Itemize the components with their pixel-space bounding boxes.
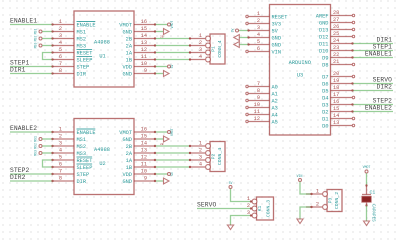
U1 pin 11 1B (134, 59, 155, 61)
K1 pin 1 (252, 199, 257, 204)
svg-text:12: 12 (254, 116, 260, 122)
svg-text:U2: U2 (99, 161, 105, 167)
svg-text:CONN_3: CONN_3 (266, 200, 272, 217)
U3 GND pin5 ground (240, 44, 249, 46)
U1 pin 5 RESET (53, 52, 74, 54)
svg-text:D9: D9 (322, 56, 328, 62)
svg-text:RESET: RESET (272, 15, 288, 21)
svg-text:A2: A2 (272, 99, 278, 105)
svg-text:2: 2 (257, 18, 260, 24)
svg-text:RESET: RESET (77, 51, 93, 57)
P3 pin 2 (323, 205, 328, 210)
U1 VDD supply (155, 66, 167, 68)
svg-text:ENABLE2: ENABLE2 (10, 125, 37, 132)
svg-text:ENABLE: ENABLE (77, 23, 96, 29)
svg-text:1A: 1A (126, 51, 133, 57)
U3 pin 9 A2 (249, 100, 270, 102)
svg-text:P1: P1 (211, 46, 217, 52)
U1 pin 3 MS2 (53, 38, 74, 40)
svg-text:A4988: A4988 (94, 40, 110, 46)
net STEP1 wire to U3 pin 23 (352, 50, 393, 52)
U3 pin 11 A4 (249, 114, 270, 116)
U2 pin 13 2A (134, 152, 155, 154)
U3 pin 24 D11 (331, 43, 353, 45)
svg-text:5: 5 (59, 155, 62, 161)
wire U1 out 2 (155, 45, 190, 47)
svg-text:9: 9 (144, 176, 147, 182)
svg-text:12: 12 (141, 47, 147, 53)
U1 pin 10 VDD (134, 66, 155, 68)
svg-text:STEP2: STEP2 (10, 167, 30, 174)
svg-text:10: 10 (141, 61, 147, 67)
C1 VMOT supply (365, 170, 368, 173)
U3 pin 2 3V3 (249, 23, 270, 25)
svg-text:MS2: MS2 (77, 144, 87, 150)
svg-text:4: 4 (199, 162, 202, 168)
svg-text:D10: D10 (319, 49, 329, 55)
svg-text:STEP1: STEP1 (10, 60, 30, 67)
svg-text:ENABLE1: ENABLE1 (365, 51, 392, 58)
svg-text:4: 4 (59, 40, 62, 46)
svg-text:1: 1 (199, 141, 202, 147)
U2 pin 10 VDD (134, 173, 155, 175)
svg-text:20: 20 (333, 71, 339, 77)
svg-text:5V: 5V (170, 65, 174, 69)
U1 GND pin15 ground (155, 31, 163, 33)
K1 pin 2 (252, 206, 257, 211)
svg-text:25: 25 (333, 31, 339, 37)
svg-text:3: 3 (257, 25, 260, 31)
svg-text:3: 3 (59, 33, 62, 39)
svg-text:DIR: DIR (77, 72, 87, 78)
U2 pin 4 MS3 (53, 152, 74, 154)
connector P3 CONN_2 body (327, 190, 342, 212)
svg-text:6: 6 (257, 46, 260, 52)
svg-text:2A: 2A (126, 44, 133, 50)
svg-text:MS2: MS2 (34, 36, 38, 42)
U3 5V supply wire (239, 30, 249, 32)
svg-text:GND: GND (122, 72, 132, 78)
svg-text:2: 2 (59, 26, 62, 32)
svg-text:D2: D2 (322, 110, 328, 116)
wire U2 out 4 (155, 166, 190, 168)
svg-text:VMOT: VMOT (170, 128, 174, 136)
U3 pin2 open end (246, 22, 248, 24)
U1 pin 7 STEP (53, 66, 74, 68)
P1 pin 4 (206, 57, 211, 62)
svg-text:11: 11 (254, 109, 260, 115)
K1 5V supply wire (229, 186, 232, 189)
U2 pin 5 RESET (53, 159, 74, 161)
svg-text:9: 9 (257, 95, 260, 101)
svg-text:D3: D3 (322, 103, 328, 109)
U3 pin 12 A5 (249, 121, 270, 123)
svg-text:3V3: 3V3 (272, 22, 282, 28)
svg-text:2: 2 (199, 148, 202, 154)
svg-text:A1: A1 (272, 92, 278, 98)
svg-text:MS3: MS3 (77, 44, 87, 50)
wire U1 out 1 (155, 38, 190, 40)
C1 ground (364, 221, 370, 226)
svg-text:STEP2: STEP2 (373, 98, 393, 105)
svg-text:3: 3 (59, 141, 62, 147)
U3 pin 15 D2 (331, 111, 353, 113)
svg-text:2: 2 (59, 134, 62, 140)
U3 pin 4 GND (249, 37, 270, 39)
IC U1 A4988 body (74, 11, 134, 87)
U3 pin 13 D0 (331, 125, 353, 127)
U2 pin 12 1A (134, 159, 155, 161)
svg-text:ENABLE1: ENABLE1 (10, 18, 37, 25)
U1 VMOT supply (155, 24, 167, 26)
U3 pin 7 A0 (249, 86, 270, 88)
U2 VDD supply (155, 173, 167, 175)
svg-text:17: 17 (333, 92, 339, 98)
svg-text:MS2: MS2 (77, 37, 87, 43)
U2 pin 16 VMOT (134, 131, 155, 133)
svg-text:DIR1: DIR1 (10, 67, 26, 74)
U3 pin 10 A3 (249, 107, 270, 109)
net ENABLE2 wire to U3 pin 15 (352, 111, 393, 113)
svg-text:16: 16 (333, 99, 339, 105)
svg-text:VMOT: VMOT (170, 21, 174, 29)
svg-text:VDD: VDD (122, 172, 132, 178)
U2 pin 3 MS2 (53, 145, 74, 147)
wire U1 out 4 (155, 59, 190, 61)
U2 pin 2 MS1 (53, 138, 74, 140)
svg-text:6: 6 (59, 162, 62, 168)
svg-text:8: 8 (257, 88, 260, 94)
U2 pin 8 DIR (53, 180, 74, 182)
U1 GND pin9 ground (155, 73, 163, 75)
svg-text:5V: 5V (272, 29, 279, 35)
U3 pin 28 AREF (331, 15, 353, 17)
svg-text:DIR2: DIR2 (10, 174, 26, 181)
U1 pin 8 DIR (53, 73, 74, 75)
svg-text:CONN_4: CONN_4 (217, 148, 223, 165)
svg-text:MS1: MS1 (34, 29, 38, 35)
wire U2 out 1 (155, 145, 190, 147)
K1 pin 3 (252, 213, 257, 218)
svg-text:D1: D1 (322, 117, 328, 123)
svg-text:18: 18 (333, 85, 339, 91)
P3 Vin supply wire (299, 179, 302, 182)
U3 GND pin4 ground (240, 37, 249, 39)
svg-text:14: 14 (333, 113, 339, 119)
svg-text:2B: 2B (126, 144, 132, 150)
svg-text:A4988: A4988 (94, 147, 110, 153)
P1 pin 2 (206, 43, 211, 48)
svg-text:DIR1: DIR1 (376, 37, 392, 44)
svg-text:1: 1 (59, 127, 62, 133)
svg-text:VIN: VIN (297, 174, 303, 178)
U2 pin 15 GND (134, 138, 155, 140)
svg-text:22: 22 (333, 52, 339, 58)
svg-text:AREF: AREF (316, 14, 329, 20)
U3 pin6 open end (246, 50, 248, 52)
U3 pin 1 RESET (249, 16, 270, 18)
svg-text:21: 21 (333, 59, 339, 65)
wire U1 out 3 (155, 52, 190, 54)
svg-text:D7: D7 (322, 75, 328, 81)
svg-text:7: 7 (59, 169, 62, 175)
svg-text:15: 15 (141, 134, 147, 140)
connector K1 CONN_3 body (257, 197, 274, 220)
svg-text:11: 11 (141, 162, 147, 168)
svg-text:1B: 1B (126, 58, 132, 64)
svg-text:14: 14 (141, 33, 147, 39)
svg-text:VMOT: VMOT (119, 130, 132, 136)
svg-text:4: 4 (257, 32, 260, 38)
svg-text:1: 1 (59, 19, 62, 25)
net ENABLE1 wire to U3 pin 22 (352, 57, 393, 59)
svg-text:5V: 5V (170, 172, 174, 176)
svg-text:13: 13 (141, 40, 147, 46)
U3 pin 19 D6 (331, 83, 353, 85)
svg-text:11: 11 (141, 54, 147, 60)
svg-text:3: 3 (199, 155, 202, 161)
svg-text:1A: 1A (126, 158, 133, 164)
net SERVO wire to U3 pin 19 (352, 83, 393, 85)
svg-text:STEP1: STEP1 (373, 44, 393, 51)
svg-text:DIR: DIR (77, 179, 87, 185)
U3 pin 18 D5 (331, 90, 353, 92)
svg-text:VIN: VIN (272, 50, 282, 56)
svg-text:GND: GND (272, 43, 282, 49)
svg-text:14: 14 (141, 141, 147, 147)
U3 pin 8 A1 (249, 93, 270, 95)
wire U2 out 2 (155, 152, 190, 154)
U2 pin 11 1B (134, 166, 155, 168)
svg-text:12: 12 (141, 155, 147, 161)
U1 pin 4 MS3 (53, 45, 74, 47)
U1 pin 15 GND (134, 31, 155, 33)
svg-text:10: 10 (141, 169, 147, 175)
svg-text:MS1: MS1 (77, 30, 87, 36)
svg-text:MS2: MS2 (34, 143, 38, 149)
svg-text:GND: GND (272, 36, 282, 42)
svg-text:SLEEP: SLEEP (77, 165, 93, 171)
U3 pin 3 5V (249, 30, 270, 32)
U1 pin 2 MS1 (53, 31, 74, 33)
svg-text:K1: K1 (257, 206, 263, 212)
svg-text:P3: P3 (328, 198, 334, 204)
svg-text:D13: D13 (319, 28, 329, 34)
svg-text:27: 27 (333, 17, 339, 23)
svg-text:1: 1 (199, 33, 202, 39)
svg-text:28: 28 (333, 10, 339, 16)
P3 ground wire (300, 207, 312, 219)
P2 pin 4 (206, 165, 211, 170)
svg-text:1B: 1B (126, 165, 132, 171)
svg-text:10: 10 (254, 102, 260, 108)
U1 RESET-SLEEP tie wire (43, 53, 54, 60)
svg-text:SERVO: SERVO (373, 77, 393, 84)
svg-text:D12: D12 (319, 35, 329, 41)
K1 ground wire (231, 216, 252, 226)
P2 pin 2 (206, 151, 211, 156)
svg-text:D5: D5 (322, 89, 328, 95)
connector P2 CONN_4 body (210, 142, 225, 172)
svg-text:D4: D4 (322, 96, 328, 102)
wire U2 out 3 (155, 159, 190, 161)
U2 pin 9 GND (134, 180, 155, 182)
svg-text:15: 15 (141, 26, 147, 32)
U3 pin 20 D7 (331, 76, 353, 78)
svg-text:STEP: STEP (77, 65, 90, 71)
svg-text:23: 23 (333, 45, 339, 51)
svg-text:2: 2 (316, 202, 319, 208)
U3 pin 5 GND (249, 44, 270, 46)
svg-text:5: 5 (59, 47, 62, 53)
svg-text:GND: GND (319, 21, 329, 27)
svg-text:2A: 2A (126, 151, 133, 157)
U1 pin 13 2A (134, 45, 155, 47)
IC U3 ARDUINO body (270, 5, 331, 136)
svg-text:2B: 2B (160, 143, 164, 146)
svg-text:MS3: MS3 (34, 150, 38, 156)
svg-text:VDD: VDD (122, 65, 132, 71)
wire C1 top (366, 173, 368, 185)
U3 pin 6 VIN (249, 51, 270, 53)
svg-text:5: 5 (257, 39, 260, 45)
svg-text:CAPAPES: CAPAPES (371, 204, 375, 222)
net DIR2 wire to U3 pin 18 (352, 90, 393, 92)
IC U2 A4988 body (74, 119, 134, 195)
U2 VMOT supply (155, 131, 167, 133)
U2 RESET-SLEEP tie wire (43, 160, 54, 167)
svg-text:8: 8 (59, 68, 62, 74)
svg-text:2B: 2B (160, 36, 164, 39)
svg-text:4: 4 (199, 54, 202, 60)
svg-text:26: 26 (333, 24, 339, 30)
U3 pin 17 D4 (331, 97, 353, 99)
P2 pin 1 (206, 144, 211, 149)
svg-text:5V: 5V (231, 29, 235, 33)
capacitor C1 (366, 186, 368, 195)
U1 pin 9 GND (134, 73, 155, 75)
svg-text:SERVO: SERVO (197, 202, 217, 209)
U2 pin 1 ENABLE (53, 131, 74, 133)
svg-text:STEP: STEP (77, 172, 90, 178)
P1 pin 1 (206, 36, 211, 41)
svg-text:P2: P2 (211, 154, 217, 160)
svg-text:7: 7 (59, 61, 62, 67)
svg-text:U1: U1 (99, 54, 105, 60)
U3 pin 22 D9 (331, 57, 353, 59)
svg-text:ARDUINO: ARDUINO (289, 60, 311, 66)
svg-text:13: 13 (333, 120, 339, 126)
svg-text:16: 16 (141, 19, 147, 25)
svg-text:19: 19 (333, 78, 339, 84)
svg-text:7: 7 (257, 81, 260, 87)
U3 pin 26 D13 (331, 29, 353, 31)
svg-text:15: 15 (333, 106, 339, 112)
svg-text:VMOT: VMOT (119, 23, 132, 29)
U2 pin 14 2B (134, 145, 155, 147)
U3 pin 16 D3 (331, 104, 353, 106)
U1 pin 6 SLEEP (53, 59, 74, 61)
U1 pin 1 ENABLE (53, 24, 74, 26)
svg-text:C1: C1 (370, 190, 376, 196)
U3 pin 21 D8 (331, 64, 353, 66)
U2 GND pin15 ground (155, 138, 163, 140)
svg-text:ENABLE2: ENABLE2 (365, 105, 392, 112)
svg-text:D6: D6 (322, 82, 328, 88)
U3 pin 25 D12 (331, 36, 353, 38)
svg-text:D11: D11 (319, 42, 329, 48)
svg-text:24: 24 (333, 38, 339, 44)
P3 pin 1 (323, 192, 328, 197)
svg-text:3: 3 (199, 47, 202, 53)
svg-text:VMOT: VMOT (363, 165, 371, 169)
U1 pin 12 1A (134, 52, 155, 54)
svg-text:GND: GND (122, 179, 132, 185)
svg-text:MS3: MS3 (34, 43, 38, 49)
connector P1 CONN_4 body (210, 34, 225, 64)
svg-text:A0: A0 (272, 85, 278, 91)
U2 GND pin9 ground (155, 180, 163, 182)
U2 pin 6 SLEEP (53, 166, 74, 168)
svg-text:ENABLE: ENABLE (77, 130, 96, 136)
svg-text:D0: D0 (322, 124, 328, 130)
U1 pin 14 2B (134, 38, 155, 40)
svg-text:SLEEP: SLEEP (77, 58, 93, 64)
svg-text:13: 13 (141, 148, 147, 154)
svg-text:16: 16 (141, 127, 147, 133)
svg-text:9: 9 (144, 68, 147, 74)
net STEP2 wire to U3 pin 16 (352, 104, 393, 106)
svg-text:U3: U3 (297, 73, 303, 79)
U3 pin 14 D1 (331, 118, 353, 120)
svg-text:1: 1 (316, 189, 319, 195)
svg-text:MS3: MS3 (77, 151, 87, 157)
svg-text:A5: A5 (272, 120, 278, 126)
svg-text:A4: A4 (272, 113, 278, 119)
svg-text:A3: A3 (272, 106, 278, 112)
U2 pin 7 STEP (53, 173, 74, 175)
U1 pin 16 VMOT (134, 24, 155, 26)
wire C1 bottom (365, 204, 367, 206)
svg-text:GND: GND (122, 137, 132, 143)
svg-text:6: 6 (59, 54, 62, 60)
svg-text:CONN_2: CONN_2 (334, 192, 340, 209)
svg-text:D8: D8 (322, 63, 328, 69)
svg-text:1: 1 (257, 11, 260, 17)
U3 pin1 open end (246, 15, 248, 17)
net DIR1 wire to U3 pin 24 (352, 43, 393, 45)
svg-text:GND: GND (122, 30, 132, 36)
svg-text:5V: 5V (229, 181, 233, 185)
svg-text:8: 8 (59, 176, 62, 182)
svg-text:4: 4 (59, 148, 62, 154)
U3 pin 23 D10 (331, 50, 353, 52)
P2 pin 3 (206, 158, 211, 163)
svg-text:MS1: MS1 (77, 137, 87, 143)
svg-text:2: 2 (199, 40, 202, 46)
P1 pin 3 (206, 50, 211, 55)
U3 pin 27 GND (331, 22, 353, 24)
svg-text:DIR2: DIR2 (376, 84, 392, 91)
svg-text:RESET: RESET (77, 158, 93, 164)
svg-text:MS1: MS1 (34, 136, 38, 142)
svg-text:CONN_4: CONN_4 (217, 40, 223, 57)
svg-text:2B: 2B (126, 37, 132, 43)
